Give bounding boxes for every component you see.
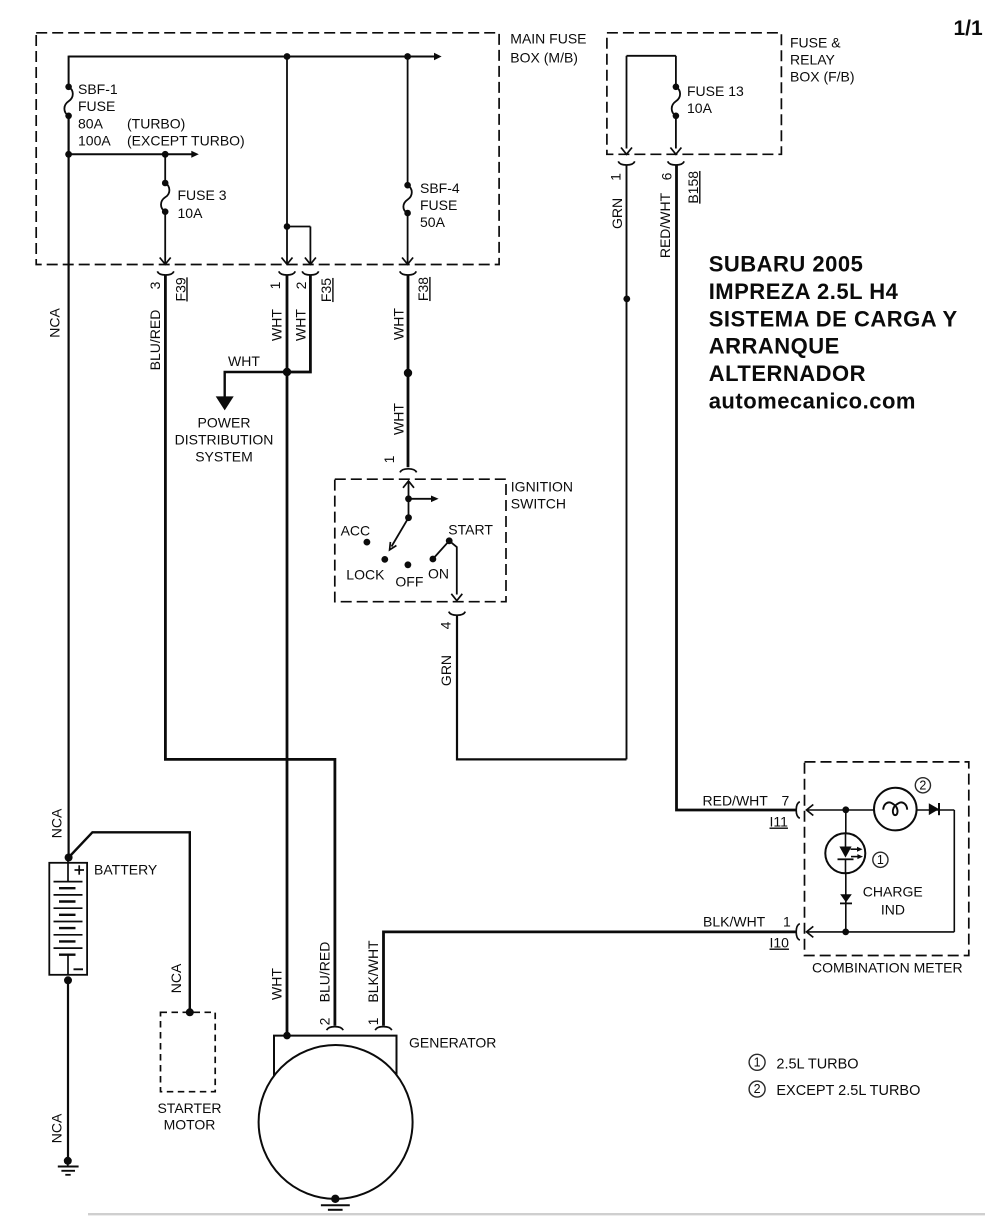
generator body frame [274, 1036, 397, 1085]
svg-text:80A: 80A [78, 115, 104, 131]
connector ignition pin 4 [449, 612, 466, 616]
svg-text:4: 4 [438, 621, 454, 629]
svg-text:SISTEMA DE CARGA Y: SISTEMA DE CARGA Y [709, 307, 958, 332]
svg-text:2.5L TURBO: 2.5L TURBO [776, 1056, 858, 1072]
battery B1 [49, 858, 87, 975]
svg-text:GRN: GRN [609, 198, 625, 229]
svg-text:FUSE &: FUSE & [790, 35, 841, 51]
wire: F35 split crossbar [287, 226, 310, 228]
svg-text:ACC: ACC [341, 523, 371, 539]
svg-text:RED/WHT: RED/WHT [657, 192, 673, 258]
svg-text:1: 1 [365, 1017, 381, 1025]
svg-text:1: 1 [783, 914, 791, 930]
legend circled 2 [749, 1081, 765, 1097]
svg-text:7: 7 [782, 793, 790, 809]
svg-text:MOTOR: MOTOR [164, 1117, 216, 1133]
svg-text:NCA: NCA [168, 963, 184, 993]
connector F38 [400, 271, 417, 275]
svg-text:10A: 10A [178, 205, 204, 221]
combination meter box (dashed enclosure) [805, 762, 969, 956]
svg-text:WHT: WHT [269, 309, 285, 341]
svg-text:WHT: WHT [228, 353, 260, 369]
rotor arm toward LOCK [392, 518, 409, 547]
wire NCA: battery to starter motor [69, 832, 190, 1012]
bottom scan line [88, 1213, 985, 1215]
svg-text:3: 3 [147, 281, 163, 289]
contact LOCK [381, 556, 388, 563]
ground G1 (battery) [58, 1157, 79, 1175]
svg-text:F38: F38 [415, 277, 431, 301]
svg-text:(EXCEPT TURBO): (EXCEPT TURBO) [127, 132, 245, 148]
wire: battery feed bus (top horizontal) [69, 56, 435, 58]
svg-text:1: 1 [608, 173, 624, 181]
svg-text:NCA: NCA [49, 808, 65, 838]
svg-text:SYSTEM: SYSTEM [195, 449, 253, 465]
svg-text:POWER: POWER [198, 415, 251, 431]
svg-text:WHT: WHT [293, 309, 309, 341]
arrowhead into F/B pin1 [621, 148, 632, 155]
arrowhead into F35 pin2 [305, 258, 316, 265]
svg-text:1: 1 [381, 455, 397, 463]
svg-text:1/1: 1/1 [954, 17, 984, 40]
svg-text:ARRANQUE: ARRANQUE [709, 334, 840, 359]
svg-text:B158: B158 [685, 171, 701, 204]
svg-text:10A: 10A [687, 100, 713, 116]
svg-text:IND: IND [881, 902, 905, 918]
node: WHT terminal on generator [283, 1032, 291, 1040]
contact ACC [364, 539, 371, 546]
legend circled 1 [749, 1054, 765, 1070]
svg-text:NCA: NCA [47, 308, 63, 338]
node: starter motor terminal [186, 1008, 194, 1016]
svg-text:2: 2 [919, 778, 926, 792]
contact START [446, 537, 453, 544]
contact OFF [405, 561, 412, 568]
lamp (charge warning bulb) [874, 788, 917, 831]
variant mark circled 1 [873, 852, 888, 867]
svg-text:BLK/WHT: BLK/WHT [703, 914, 766, 930]
wire: meter bottom branch [807, 931, 955, 933]
connector B158 pin6 [668, 161, 685, 165]
svg-text:automecanico.com: automecanico.com [709, 389, 916, 414]
svg-text:MAIN FUSE: MAIN FUSE [510, 31, 586, 47]
arrowhead on bus [434, 53, 442, 60]
arrowhead feed right [431, 496, 439, 503]
svg-text:NCA: NCA [49, 1113, 65, 1143]
svg-text:OFF: OFF [395, 574, 423, 590]
svg-text:FUSE: FUSE [78, 98, 115, 114]
wire: FUSE 3 feed [164, 154, 166, 183]
arrowhead to power distribution [216, 396, 234, 410]
starter motor box (dashed enclosure) [161, 1012, 216, 1091]
svg-text:F39: F39 [172, 277, 188, 301]
svg-text:EXCEPT 2.5L TURBO: EXCEPT 2.5L TURBO [776, 1083, 920, 1099]
node: turbo branch junction on NCA wire [65, 151, 72, 158]
wire BLK/WHT: meter I10 to generator pin1 [384, 932, 796, 1026]
node: switch common 1 [405, 495, 412, 502]
wire: NCA vertical through box down to battery [67, 116, 69, 858]
power distribution system label [175, 415, 274, 465]
arrowhead into F39 [160, 258, 171, 265]
connector B158 pin1 [618, 161, 635, 165]
svg-text:LOCK: LOCK [346, 567, 385, 583]
wire: meter right vertical [953, 810, 955, 932]
fuse FUSE 3 [161, 180, 169, 215]
wire: F35 pin2 drop [309, 227, 311, 264]
node: charge lamp branch junction [842, 806, 849, 813]
svg-text:BLU/RED: BLU/RED [317, 942, 333, 1003]
svg-text:BOX (F/B): BOX (F/B) [790, 69, 855, 85]
svg-text:RELAY: RELAY [790, 52, 836, 68]
wire: START to pin 4 [449, 541, 457, 595]
arrowhead into B158 pin6 [670, 148, 681, 155]
svg-text:RED/WHT: RED/WHT [703, 793, 769, 809]
wire RED/WHT: B158 pin6 to combination meter I11 [677, 165, 796, 810]
wire: F35 branch vertical [286, 57, 288, 227]
title block text [709, 251, 958, 413]
generator rotor circle [259, 1045, 413, 1199]
arrowhead into I10 [807, 926, 814, 937]
arrowhead into I11 [807, 805, 814, 816]
svg-text:DISTRIBUTION: DISTRIBUTION [175, 432, 274, 448]
node: FUSE 3 tap junction [162, 151, 169, 158]
node: splice on GRN wire [623, 296, 630, 303]
svg-text:1: 1 [754, 1055, 761, 1069]
connector I10 [796, 924, 800, 941]
svg-text:ALTERNADOR: ALTERNADOR [709, 361, 866, 386]
svg-text:ON: ON [428, 566, 449, 582]
wire: SBF-4 branch vertical [407, 57, 409, 186]
svg-text:STARTER: STARTER [157, 1100, 221, 1116]
svg-text:BLU/RED: BLU/RED [147, 310, 163, 371]
svg-text:FUSE 3: FUSE 3 [178, 187, 227, 203]
wire: F38 drop [407, 213, 409, 263]
wire: branch to power distribution system [225, 372, 287, 397]
fuse SBF-4 [403, 182, 411, 216]
svg-text:BOX (M/B): BOX (M/B) [510, 50, 578, 66]
arrowhead down to pin 4 [451, 594, 462, 601]
node: generator ground terminal [331, 1195, 339, 1203]
arrowhead into F35 pin1 [282, 258, 293, 265]
connector I11 [796, 802, 800, 819]
svg-text:SBF-4: SBF-4 [420, 180, 460, 196]
svg-text:FUSE: FUSE [420, 197, 457, 213]
arrowhead rotor arm [390, 542, 397, 550]
arrowhead into F38 [402, 258, 413, 265]
svg-text:CHARGE: CHARGE [863, 884, 923, 900]
main fuse box M/B (dashed enclosure) [36, 33, 499, 265]
fuse &amp; relay box F/B (dashed enclosure) [607, 33, 782, 155]
node: WHT splice to power distribution [283, 368, 291, 376]
svg-text:I11: I11 [770, 814, 789, 830]
wire: FUSE 13 drop [675, 116, 677, 149]
wire: ON to START link [433, 541, 449, 559]
svg-text:START: START [448, 522, 493, 538]
ignition switch box (dashed enclosure) [335, 479, 506, 602]
node: splice on F38 WHT wire [404, 369, 412, 377]
wire WHT: F35 pin2 leg [287, 275, 310, 373]
svg-text:50A: 50A [420, 214, 446, 230]
svg-text:F35: F35 [318, 278, 334, 302]
svg-text:BATTERY: BATTERY [94, 861, 158, 877]
node: bus junction at SBF-4 branch [404, 53, 411, 60]
wire: feed arrow right [409, 498, 432, 500]
connector generator pin 2 [327, 1027, 344, 1031]
svg-text:2: 2 [754, 1082, 761, 1096]
wire BLU/RED: F39 to generator pin2 [165, 275, 335, 1026]
node: battery negative junction [64, 976, 72, 984]
fuse SBF-1 [64, 84, 72, 120]
wire NCA: battery negative to ground [67, 980, 69, 1161]
wire WHT: F38 to ignition switch [407, 275, 410, 468]
diode D2 (below LED) [840, 894, 852, 903]
svg-text:SWITCH: SWITCH [511, 496, 566, 512]
svg-text:GRN: GRN [438, 655, 454, 686]
ground G2 (generator) [321, 1205, 350, 1214]
svg-text:COMBINATION METER: COMBINATION METER [812, 960, 963, 976]
svg-text:FUSE 13: FUSE 13 [687, 83, 744, 99]
svg-text:SBF-1: SBF-1 [78, 81, 118, 97]
node: meter bottom junction [842, 929, 849, 936]
wire: turbo branch horizontal [69, 153, 192, 155]
svg-text:IMPREZA 2.5L H4: IMPREZA 2.5L H4 [709, 279, 899, 304]
svg-text:WHT: WHT [391, 403, 407, 435]
svg-text:SUBARU 2005: SUBARU 2005 [709, 251, 864, 276]
connector F35 pin1 [279, 271, 296, 275]
svg-text:BLK/WHT: BLK/WHT [365, 940, 381, 1003]
fuse SBF-4 value labels [420, 180, 460, 230]
F/B internals: wire left leg pin1 [626, 56, 628, 149]
svg-text:100A: 100A [78, 132, 111, 148]
wire: FUSE 13 feed [675, 56, 677, 87]
svg-text:(TURBO): (TURBO) [127, 115, 185, 131]
contact ON [430, 556, 437, 563]
wire WHT: F35 pin1 to generator [286, 275, 289, 1036]
wire GRN: F/B pin1 vertical [626, 165, 628, 759]
node: bus junction at F35 branch [284, 53, 291, 60]
svg-text:1: 1 [877, 853, 884, 867]
connector F35 pin2 [302, 271, 319, 275]
svg-text:6: 6 [659, 172, 675, 180]
wire: F/B top crossbar [627, 55, 676, 57]
fuse FUSE 13 [672, 84, 680, 120]
variant mark circled 2 [915, 778, 930, 793]
svg-text:1: 1 [267, 281, 283, 289]
svg-text:2: 2 [317, 1017, 333, 1025]
svg-text:I10: I10 [770, 935, 790, 951]
node: switch common 2 [405, 514, 412, 521]
wire: F35 pin1 drop [286, 227, 288, 264]
wire: switch input stem [408, 482, 410, 499]
wire: LED branch vertical [845, 810, 847, 932]
connector F39 [157, 271, 174, 275]
svg-text:GENERATOR: GENERATOR [409, 1034, 496, 1050]
connector ignition pin 1 [400, 469, 417, 473]
wire: NCA feed upper segment [68, 56, 70, 87]
node: battery positive junction [65, 854, 73, 862]
wire GRN: ignition pin 4 to F/B pin 1 [457, 616, 627, 760]
wire: common link [408, 499, 410, 518]
node: F35 split junction [284, 223, 291, 230]
svg-text:IGNITION: IGNITION [511, 479, 573, 495]
arrowhead up into switch [403, 481, 414, 488]
LED charge indicator [825, 833, 865, 873]
connector generator pin 1 [375, 1027, 392, 1031]
svg-text:WHT: WHT [391, 308, 407, 340]
svg-text:WHT: WHT [269, 968, 285, 1000]
diode D (after lamp) [929, 803, 939, 815]
arrowhead turbo branch [191, 151, 199, 158]
fuse SBF-1 value labels [78, 81, 245, 148]
wire: meter top branch [807, 809, 955, 811]
wire: F39 drop [164, 212, 166, 263]
svg-text:2: 2 [293, 281, 309, 289]
